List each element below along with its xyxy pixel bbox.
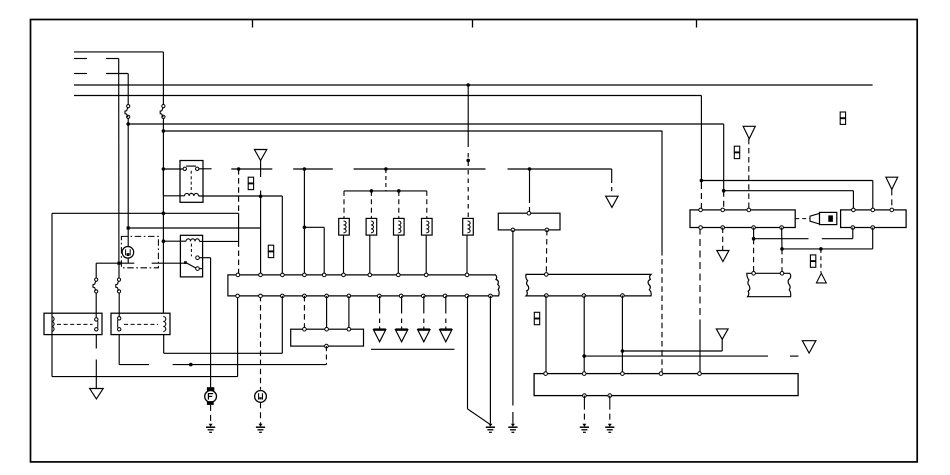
connector marker M4 xyxy=(734,146,739,152)
wire G3 stem xyxy=(748,139,750,210)
wire V467 below ECM xyxy=(467,296,469,409)
ground triangle GT4 xyxy=(440,330,452,342)
wire V304 upper xyxy=(303,169,305,273)
wire V282 to ECM B3 xyxy=(281,296,283,353)
ECM pin T7 xyxy=(368,273,372,277)
node V468 xyxy=(466,159,470,163)
injector 4 coil xyxy=(426,221,429,233)
wire V513 upper xyxy=(512,230,514,406)
ground GA1 xyxy=(90,389,104,399)
ECM pin T9 xyxy=(424,273,428,277)
wire GA722 gnd stem xyxy=(722,228,724,251)
wire V119 below VSV-B xyxy=(118,335,120,365)
node H214 xyxy=(162,212,166,216)
wire V324 xyxy=(323,227,325,273)
ECM pin B8 xyxy=(399,294,403,298)
wire H353 xyxy=(164,352,283,354)
injector 1 coil xyxy=(344,221,347,233)
BB pin T4 xyxy=(659,372,663,376)
fuel pump letter xyxy=(207,393,209,399)
connector marker M6 xyxy=(840,112,845,118)
wire UT1 stem xyxy=(820,249,822,273)
relay R2 box xyxy=(180,235,202,277)
wire H169 seg b xyxy=(293,168,333,170)
fuse F1b xyxy=(162,105,165,108)
wire H238 seg a xyxy=(754,238,809,240)
wire motor2 ground lead xyxy=(260,402,262,424)
injector 5 coil xyxy=(468,221,471,233)
node H356 xyxy=(582,354,586,358)
wire V662 upper xyxy=(661,131,663,250)
BB pin B1 xyxy=(583,394,587,398)
chassis ground CG4 xyxy=(511,424,515,427)
wire V529 upper xyxy=(529,169,531,203)
injector 2 coil xyxy=(371,221,374,233)
bus line B2 xyxy=(74,95,701,97)
ECM2 pin top xyxy=(545,273,549,277)
junction square x119/y263 xyxy=(117,262,120,265)
wire V584 dn xyxy=(583,296,585,374)
ground triangle GT2 xyxy=(395,330,407,342)
wire V118 upper xyxy=(118,59,120,264)
ground G611 xyxy=(606,196,618,207)
wire V210 pump feed xyxy=(210,258,212,388)
wire H238 seg b xyxy=(822,238,853,240)
wire V238 upper xyxy=(238,169,240,213)
GA pin B1 xyxy=(699,226,703,230)
box B link xyxy=(124,323,158,325)
injector 2 output wire xyxy=(369,235,371,273)
box B contact bar xyxy=(117,320,119,328)
wire ECM ground stem 2 xyxy=(401,296,403,314)
wire V662 lower xyxy=(661,250,663,374)
wire V128 lower xyxy=(127,228,129,247)
node x701/y180 xyxy=(700,179,704,183)
ECM pin T6 xyxy=(342,273,346,277)
BB pin T3 xyxy=(621,372,625,376)
bottom connector box xyxy=(534,374,798,396)
wire V701 upper xyxy=(700,96,702,184)
S1 pin bottom xyxy=(325,344,329,348)
key plug symbol xyxy=(810,213,820,224)
wire V852 xyxy=(852,228,854,239)
wire H169 drop xyxy=(611,169,613,183)
motor2 glyph xyxy=(258,393,260,399)
wire S1 feed b xyxy=(326,296,328,329)
injector 3 box xyxy=(394,218,405,235)
wire V872 low xyxy=(872,228,874,249)
ECM pin T8 xyxy=(397,273,401,277)
ECM pin B9 xyxy=(422,294,426,298)
relay R2 contact up xyxy=(196,256,200,260)
wire H263 seg b xyxy=(152,262,186,264)
wire W2 xyxy=(106,58,119,60)
wire R2 out xyxy=(199,257,210,259)
ECM connector box 1 xyxy=(228,275,499,296)
wire R2 coil left xyxy=(163,240,186,242)
ECM pin B12 xyxy=(489,294,493,298)
node H351 xyxy=(621,349,625,353)
relay R1 right pin wire xyxy=(199,168,212,170)
relay R1 contact bridge xyxy=(186,165,196,167)
relay R1 contact left xyxy=(183,167,186,170)
wire G722 stem xyxy=(721,339,723,351)
CM pin B1 xyxy=(851,226,855,230)
meter box CM xyxy=(841,210,907,228)
wire H214 xyxy=(52,212,239,214)
wire V753 upper xyxy=(753,228,755,239)
box B contact up xyxy=(118,317,121,320)
wire V237 from ECM xyxy=(237,296,239,377)
relay R2 contact com xyxy=(184,261,187,264)
node relay1 pin xyxy=(162,167,166,171)
wire V164 below VSV-B xyxy=(163,335,165,354)
injector 2 box xyxy=(366,218,377,235)
wire V701 lower xyxy=(700,183,702,210)
ground G2 xyxy=(254,150,266,161)
chassis ground CG6 xyxy=(608,424,612,427)
ground G723 xyxy=(717,251,729,262)
wire V163 coil drop xyxy=(162,169,164,196)
relay R2 coil xyxy=(186,239,200,242)
GA pin B2 xyxy=(721,226,725,230)
wire V513 lower xyxy=(512,412,514,424)
wire V700 upper xyxy=(699,228,701,321)
wire H169 seg c xyxy=(354,168,486,170)
wire injector 1 feed xyxy=(343,191,345,219)
fuel pump pad top xyxy=(207,387,214,391)
ground G5 xyxy=(802,341,816,353)
wire V529 lower xyxy=(529,207,531,213)
connector marker M1 xyxy=(248,177,253,183)
wire injector 4 feed xyxy=(426,191,428,219)
BB pin T2 xyxy=(582,372,586,376)
connector marker M2 xyxy=(268,245,273,251)
wire H351 xyxy=(622,350,722,352)
sub box S1 xyxy=(291,329,364,346)
node x386/y169 xyxy=(384,167,388,171)
wire W2 stub xyxy=(74,58,87,60)
ground G3 xyxy=(743,126,755,139)
injector 5 output wire xyxy=(466,235,468,273)
ECM pin T2 xyxy=(259,273,263,277)
wire W3 xyxy=(106,73,128,75)
wire S1 feed a xyxy=(303,296,305,329)
node x304/y227 xyxy=(303,226,307,230)
ground G2 stem xyxy=(260,161,262,178)
chassis ground CG3 xyxy=(488,424,492,427)
wire H227 jog xyxy=(304,226,324,228)
injector 3 coil xyxy=(398,221,401,233)
wire H248 xyxy=(782,248,873,250)
wire V872 dn xyxy=(872,181,874,210)
box B coil xyxy=(163,317,166,332)
junction square x128/y228 xyxy=(127,226,130,229)
wire BB gnd lead 1 xyxy=(583,396,585,424)
ECM pin B11 xyxy=(465,294,469,298)
wire V753 lower xyxy=(753,239,755,274)
ECM pin B6 xyxy=(347,294,351,298)
box A contact dn xyxy=(95,328,98,331)
GA pin B3 xyxy=(752,226,756,230)
wire injector 2 feed xyxy=(370,191,372,219)
wire V490 xyxy=(489,296,491,424)
wire S1 down xyxy=(325,346,327,365)
wire F3 feed xyxy=(95,263,97,278)
node x782/y248 xyxy=(780,247,784,251)
node x304/y169 xyxy=(303,167,307,171)
ECM2 pin b1 xyxy=(545,294,549,298)
wire V723 lower xyxy=(723,191,725,210)
ECM pin T3 xyxy=(281,273,285,277)
enclosure dashdot box xyxy=(121,236,158,267)
wire V782 upper xyxy=(781,228,783,249)
GA pin T2 xyxy=(721,208,725,212)
bus line B4 xyxy=(163,130,662,132)
injector 4 box xyxy=(422,218,433,235)
wire V547 xyxy=(545,230,548,275)
wire G4 stem xyxy=(891,189,893,210)
node x820/y248 xyxy=(819,247,823,251)
node rail x371 xyxy=(370,189,374,193)
pump control circle xyxy=(122,247,134,259)
wire circle drop xyxy=(127,258,129,263)
fuel pump pad bottom xyxy=(207,401,214,405)
sub box SB xyxy=(498,213,560,230)
ECM2 pin b3 xyxy=(621,294,625,298)
relay R2 dn stub xyxy=(199,268,202,270)
wire V238 mid xyxy=(238,213,240,241)
node H365 xyxy=(189,363,193,367)
S1 pin a xyxy=(303,327,307,331)
wire box A ground stem xyxy=(95,335,97,349)
wire inj rail stub xyxy=(385,169,387,191)
wire R2 coil right xyxy=(200,240,239,242)
wire BB gnd lead 2 xyxy=(609,396,611,424)
ECM connector box 2 xyxy=(526,274,651,296)
node x753/y238 xyxy=(752,237,756,241)
ECM pin T5 xyxy=(322,273,326,277)
bus line B3 xyxy=(128,123,724,125)
connector box RB xyxy=(747,273,791,296)
node x529/y169 xyxy=(528,167,532,171)
box A contact up xyxy=(95,318,98,321)
bus line B1 xyxy=(74,84,873,86)
wire V128 mid xyxy=(127,119,129,229)
wire V468 upper xyxy=(467,85,469,147)
wire H356 xyxy=(584,355,768,357)
RB pin 1 xyxy=(752,272,756,276)
fuse F1a xyxy=(127,105,130,108)
wire V853 dn xyxy=(852,191,854,210)
ECM pin B1 xyxy=(236,294,240,298)
ground rail underline xyxy=(371,348,455,350)
wire H356 stub xyxy=(790,355,799,357)
wire diagonal to ground xyxy=(468,409,490,424)
S1 pin c xyxy=(347,327,351,331)
injector 1 output wire xyxy=(343,235,345,273)
wire W3 stub xyxy=(74,73,87,75)
up ground UT1 xyxy=(816,273,826,283)
relay R1 contact right xyxy=(196,167,199,170)
ECM pin T10 xyxy=(465,273,469,277)
wire S1 feed c xyxy=(348,296,350,329)
ECM pin B3 xyxy=(281,294,285,298)
wire pump ground lead xyxy=(210,405,212,424)
CM pin T2 xyxy=(871,208,875,212)
CM pin B2 xyxy=(871,226,875,230)
page tick 2 xyxy=(472,20,474,28)
CM pin T3 xyxy=(890,208,894,212)
fuse F3 xyxy=(95,278,98,281)
wire V260 below ECM xyxy=(260,296,262,390)
wire ECM ground stem 3 xyxy=(423,296,425,314)
wire inj rail xyxy=(344,190,427,192)
box A link xyxy=(57,323,93,325)
wire V52 xyxy=(51,213,53,376)
wire V723 upper xyxy=(723,124,725,191)
wire H228 relay feed xyxy=(128,227,260,229)
injector 4 output wire xyxy=(425,235,427,273)
injector 5 box xyxy=(463,218,474,235)
wire H190 xyxy=(724,190,854,192)
wire H365 seg a xyxy=(119,364,149,366)
page tick 1 xyxy=(252,20,254,28)
solenoid box B xyxy=(111,313,170,334)
wire H263 seg a xyxy=(96,262,134,264)
relay R1 coil xyxy=(185,193,199,196)
ECM pin T1 xyxy=(236,273,240,277)
wire V260 upper xyxy=(260,196,262,228)
wire key dashes xyxy=(795,218,810,220)
wire H377 xyxy=(52,376,238,378)
wire H365 seg b xyxy=(173,364,327,366)
wire V238 lower xyxy=(238,241,240,273)
wire R1 coil left xyxy=(163,195,184,197)
wire V128 upper xyxy=(127,74,129,105)
box B contact dn xyxy=(118,328,121,331)
fuel pump motor xyxy=(205,391,217,403)
ECM2 pin b2 xyxy=(582,294,586,298)
relay R2 arm xyxy=(187,263,196,268)
wire V546 dn xyxy=(545,296,547,374)
solenoid box A xyxy=(44,313,102,334)
relay R2 contact dn xyxy=(196,267,200,271)
ground triangle GT3 xyxy=(418,330,430,342)
gauge box GA xyxy=(690,210,795,228)
ECM pin T4 xyxy=(303,273,307,277)
wire W1 top feed xyxy=(74,51,163,53)
wire V282 xyxy=(281,196,283,273)
BB pin B2 xyxy=(608,394,612,398)
relay R2 link xyxy=(190,244,192,257)
wire V119 to VSV-B xyxy=(118,293,120,317)
ground G722 xyxy=(716,329,728,339)
wire V163 top xyxy=(162,52,164,105)
wire V622 dn xyxy=(621,296,623,374)
relay R1 box xyxy=(180,161,203,203)
node x723/y190 xyxy=(722,189,726,193)
BB pin T1 xyxy=(544,372,548,376)
wire V163 mid xyxy=(162,119,164,314)
GA pin T1 xyxy=(699,208,703,212)
wire ECM ground stem 4 xyxy=(445,296,447,314)
SB pin b1 xyxy=(511,228,515,232)
wire V119 fuse feed xyxy=(118,263,120,278)
wire H169 seg d xyxy=(508,168,612,170)
node rail x399 xyxy=(397,189,401,193)
node relay2 coil xyxy=(162,239,166,243)
wire V468 mid xyxy=(467,153,469,218)
ECM pin B7 xyxy=(378,294,382,298)
node H196 x260 xyxy=(259,195,263,199)
node B4 start xyxy=(162,129,166,133)
ECM pin B5 xyxy=(325,294,329,298)
SB pin b2 xyxy=(545,228,549,232)
wire V782 lower xyxy=(781,249,783,273)
wire injector 3 feed xyxy=(398,191,400,219)
fuel sender motor2 xyxy=(255,391,267,403)
page tick 3 xyxy=(696,20,698,28)
ground triangle GT1 xyxy=(373,330,385,342)
relay R1 armature link xyxy=(190,171,192,193)
chassis ground CG2 xyxy=(259,424,263,427)
ground G4 xyxy=(886,177,898,189)
pump circle glyph xyxy=(125,249,127,255)
S1 pin b xyxy=(325,327,329,331)
fuse F2 xyxy=(117,278,120,281)
box A contact bar xyxy=(97,321,99,328)
chassis ground CG5 xyxy=(582,424,586,427)
ECM pin B4 xyxy=(303,294,307,298)
wire H180 xyxy=(701,180,872,182)
BB pin T5 xyxy=(698,372,702,376)
ECM pin B2 xyxy=(259,294,263,298)
GA pin B4 xyxy=(780,226,784,230)
injector 3 output wire xyxy=(397,235,399,273)
RB pin 2 xyxy=(780,272,784,276)
wire V260 to ECM xyxy=(260,228,262,273)
connector marker M3 xyxy=(534,312,539,318)
GA pin T3 xyxy=(747,208,751,212)
ECM pin B10 xyxy=(443,294,447,298)
node x238/y169 xyxy=(237,167,241,171)
wire V700 lower xyxy=(699,320,701,374)
box A coil xyxy=(52,317,55,332)
node on B1 at x468 xyxy=(466,83,470,87)
node B3 start xyxy=(126,122,130,126)
wire H169 seg a xyxy=(231,168,272,170)
SB pin top xyxy=(527,211,531,215)
relay R1 left pin wire xyxy=(163,168,183,170)
CM pin T1 xyxy=(852,208,856,212)
injector 1 box xyxy=(339,218,350,235)
wire ECM ground stem 1 xyxy=(379,296,381,314)
chassis ground CG1 xyxy=(209,424,213,427)
wire H196 xyxy=(199,195,283,197)
connector marker M5 xyxy=(810,255,815,261)
wire box A feed xyxy=(95,293,97,318)
